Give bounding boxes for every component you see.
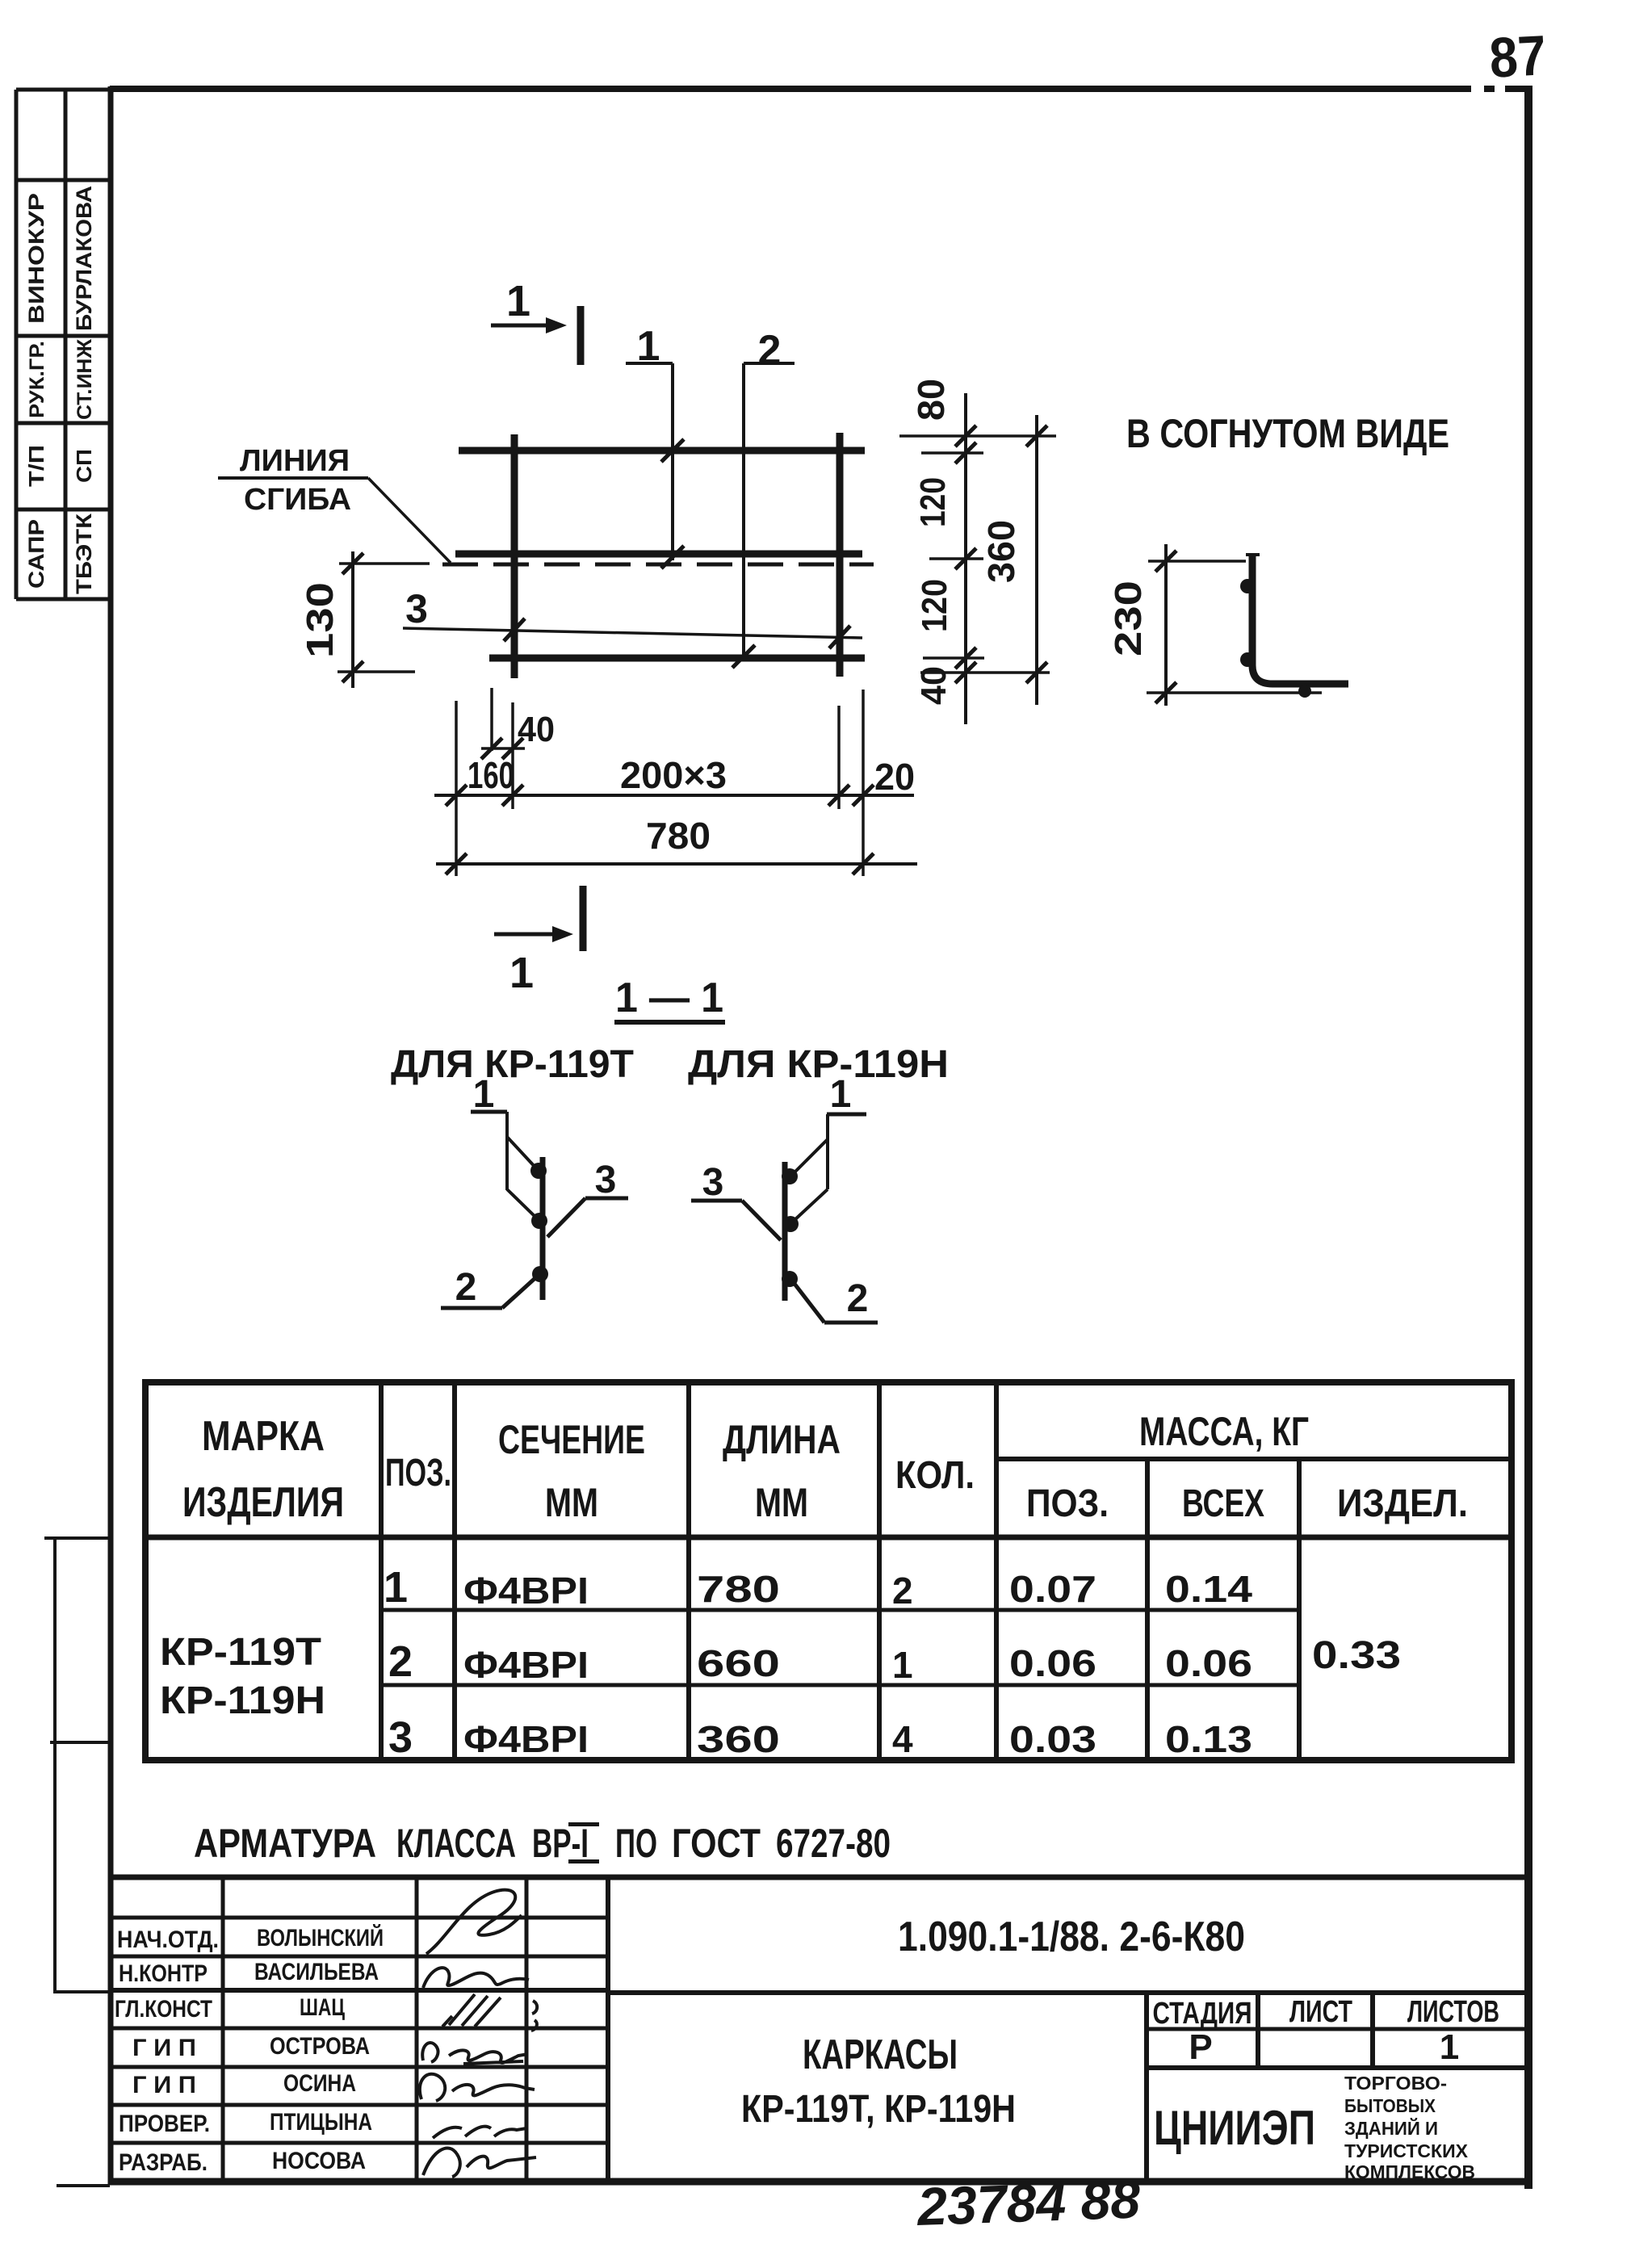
- svg-text:Ф4ВРI: Ф4ВРI: [463, 1644, 589, 1686]
- bar section dots bent view: [1240, 579, 1255, 593]
- svg-text:40: 40: [914, 666, 954, 705]
- svg-text:1 — 1: 1 — 1: [615, 975, 723, 1021]
- drawing frame top border: [110, 86, 1532, 92]
- svg-text:120: 120: [913, 477, 953, 527]
- svg-text:Г И П: Г И П: [132, 2035, 196, 2061]
- svg-text:ДЛЯ КР-119Н: ДЛЯ КР-119Н: [688, 1043, 949, 1086]
- svg-text:0.06: 0.06: [1009, 1642, 1096, 1684]
- doc number cell divider: [608, 1990, 1528, 1995]
- svg-text:2: 2: [455, 1266, 477, 1309]
- svg-text:1: 1: [506, 277, 530, 325]
- svg-text:ИЗДЕЛИЯ: ИЗДЕЛИЯ: [182, 1479, 344, 1526]
- drawing frame right border: [1524, 86, 1532, 2189]
- svg-text:СТ.ИНЖ: СТ.ИНЖ: [73, 339, 96, 420]
- svg-text:130: 130: [299, 582, 341, 658]
- svg-text:660: 660: [697, 1642, 780, 1684]
- right dimension chain 80 120 120 40: [964, 393, 967, 724]
- svg-text:ТБЭТК: ТБЭТК: [72, 513, 96, 594]
- svg-text:2: 2: [388, 1637, 413, 1686]
- svg-text:САПР: САПР: [24, 519, 48, 589]
- svg-text:БУРЛАКОВА: БУРЛАКОВА: [72, 186, 96, 331]
- svg-text:ЛИСТОВ: ЛИСТОВ: [1407, 1995, 1499, 2029]
- svg-text:КОЛ.: КОЛ.: [895, 1454, 975, 1497]
- svg-text:2: 2: [758, 327, 782, 374]
- fold line (линия сгиба): [442, 563, 874, 567]
- svg-text:Р: Р: [1189, 2027, 1212, 2067]
- bent bar: [1252, 554, 1348, 684]
- svg-text:СП: СП: [72, 449, 96, 483]
- section cut marker 1 top: plane tick: [577, 306, 585, 365]
- svg-text:160: 160: [467, 754, 514, 796]
- svg-text:200×3: 200×3: [620, 754, 727, 796]
- right view dots: [782, 1168, 798, 1184]
- svg-text:ПО: ПО: [615, 1821, 657, 1866]
- svg-text:ВСЕХ: ВСЕХ: [1182, 1482, 1264, 1525]
- svg-text:1: 1: [473, 1073, 495, 1116]
- svg-text:ВИНОКУР: ВИНОКУР: [24, 193, 48, 324]
- svg-text:КР-119Т: КР-119Т: [160, 1631, 321, 1674]
- svg-text:ЛИСТ: ЛИСТ: [1289, 1995, 1352, 2029]
- NOTE АРМАТУРА: [194, 1821, 891, 1866]
- vertical bar 3 left: [511, 434, 518, 678]
- right view bar 3: [782, 1162, 788, 1301]
- svg-text:2: 2: [847, 1277, 869, 1320]
- svg-text:1: 1: [384, 1563, 408, 1612]
- svg-text:3: 3: [702, 1161, 724, 1204]
- left inventory boxes: [44, 1538, 112, 2186]
- svg-text:ПОЗ.: ПОЗ.: [385, 1452, 451, 1495]
- bottom dimension witnesses: [455, 701, 458, 876]
- svg-text:0.14: 0.14: [1165, 1568, 1253, 1610]
- svg-text:Г И П: Г И П: [132, 2072, 196, 2098]
- drawing frame left border: [108, 86, 114, 2185]
- svg-text:360: 360: [697, 1718, 780, 1760]
- svg-text:ИЗДЕЛ.: ИЗДЕЛ.: [1337, 1482, 1468, 1525]
- svg-text:БЫТОВЫХ: БЫТОВЫХ: [1344, 2095, 1436, 2116]
- dimension 230: [1164, 544, 1168, 706]
- bar 1 (780): [459, 447, 865, 455]
- SECTION 1-1: [391, 975, 949, 1086]
- svg-text:Н.КОНТР: Н.КОНТР: [119, 1960, 208, 1987]
- svg-text:АРМАТУРА: АРМАТУРА: [194, 1821, 376, 1866]
- svg-text:0.06: 0.06: [1165, 1642, 1252, 1684]
- TITLE BLOCK: [108, 1877, 1528, 2182]
- svg-text:ГОСТ: ГОСТ: [672, 1821, 761, 1866]
- bar 2 (660): [489, 655, 865, 662]
- svg-text:ЗДАНИЙ И: ЗДАНИЙ И: [1344, 2117, 1438, 2139]
- leader 3: line: [403, 628, 862, 638]
- svg-text:Ф4ВРI: Ф4ВРI: [463, 1570, 589, 1612]
- svg-text:РУК.ГР.: РУК.ГР.: [26, 341, 48, 418]
- svg-text:87: 87: [1488, 23, 1548, 90]
- svg-text:20: 20: [874, 756, 915, 798]
- svg-text:0.13: 0.13: [1165, 1718, 1252, 1760]
- signature table verticals: [221, 1877, 225, 2182]
- svg-text:ЦНИИЭП: ЦНИИЭП: [1154, 2101, 1315, 2155]
- svg-text:КАРКАСЫ: КАРКАСЫ: [803, 2031, 958, 2078]
- svg-text:ГЛ.КОНСТ: ГЛ.КОНСТ: [115, 1996, 212, 2023]
- svg-text:Ф4ВРI: Ф4ВРI: [463, 1718, 589, 1760]
- svg-text:780: 780: [697, 1568, 780, 1610]
- svg-text:4: 4: [892, 1718, 913, 1760]
- svg-text:СГИБА: СГИБА: [244, 483, 351, 517]
- bar 1b (780): [455, 551, 862, 558]
- svg-text:1: 1: [509, 949, 534, 997]
- stadia block verticals: [1144, 1993, 1149, 2182]
- table outer border: [145, 1382, 1512, 1760]
- svg-text:2: 2: [892, 1570, 913, 1612]
- dimension 130: [351, 551, 354, 688]
- svg-text:3: 3: [388, 1713, 413, 1762]
- svg-text:КЛАССА: КЛАССА: [396, 1821, 516, 1866]
- svg-text:Т/П: Т/П: [24, 445, 48, 487]
- title block top border: [108, 1875, 1528, 1880]
- drawing frame bottom border: [108, 2178, 1531, 2186]
- signature squiggles: [426, 1890, 522, 1954]
- svg-text:80: 80: [910, 379, 952, 421]
- svg-text:0.07: 0.07: [1009, 1568, 1096, 1610]
- BENT VIEW: [1107, 411, 1449, 706]
- table verticals: [379, 1382, 384, 1760]
- svg-text:ПТИЦЫНА: ПТИЦЫНА: [270, 2109, 372, 2136]
- svg-text:МАРКА: МАРКА: [202, 1413, 325, 1460]
- dimension 40 bottom: [490, 688, 493, 751]
- svg-text:ПРОВЕР.: ПРОВЕР.: [119, 2111, 210, 2137]
- svg-text:1: 1: [1440, 2027, 1459, 2067]
- PARTS TABLE: [145, 1382, 1512, 1762]
- svg-text:РАЗРАБ.: РАЗРАБ.: [119, 2149, 208, 2176]
- svg-text:ММ: ММ: [545, 1480, 598, 1525]
- table horizontals: [996, 1457, 1512, 1461]
- svg-text:6727-80: 6727-80: [776, 1821, 891, 1866]
- svg-text:НОСОВА: НОСОВА: [272, 2148, 366, 2174]
- svg-text:ДЛИНА: ДЛИНА: [723, 1417, 841, 1462]
- svg-text:230: 230: [1107, 581, 1149, 656]
- DEVELOPMENT DRAWING: [218, 277, 1056, 997]
- svg-text:КОМПЛЕКСОВ: КОМПЛЕКСОВ: [1344, 2161, 1475, 2182]
- svg-text:ВР-I: ВР-I: [532, 1821, 589, 1866]
- svg-text:ММ: ММ: [755, 1480, 808, 1525]
- svg-text:3: 3: [405, 586, 428, 631]
- svg-text:1: 1: [892, 1644, 913, 1686]
- svg-text:ВАСИЛЬЕВА: ВАСИЛЬЕВА: [254, 1959, 379, 1985]
- svg-text:23784 88: 23784 88: [915, 2169, 1142, 2237]
- leader 2: lines: [744, 362, 795, 365]
- svg-text:КР-119Н: КР-119Н: [160, 1679, 325, 1722]
- svg-text:ОСТРОВА: ОСТРОВА: [270, 2033, 370, 2060]
- svg-text:СЕЧЕНИЕ: СЕЧЕНИЕ: [498, 1417, 645, 1462]
- svg-text:40: 40: [518, 710, 555, 749]
- vertical bar 3 right: [836, 433, 844, 677]
- svg-text:780: 780: [646, 815, 711, 857]
- svg-text:МАССА, КГ: МАССА, КГ: [1139, 1409, 1309, 1454]
- SECTION VIEW RIGHT (для КР-119Н): [691, 1073, 878, 1323]
- svg-text:1: 1: [830, 1073, 852, 1116]
- dimension chain 160 200x3 20: [434, 794, 914, 797]
- svg-text:1.090.1-1/88. 2-6-К80: 1.090.1-1/88. 2-6-К80: [898, 1914, 1245, 1960]
- section cut marker 1 top: arrow line: [491, 324, 547, 328]
- svg-text:ТУРИСТСКИХ: ТУРИСТСКИХ: [1344, 2140, 1469, 2161]
- signature table horizontals: [111, 1916, 608, 1920]
- svg-text:360: 360: [980, 520, 1022, 583]
- svg-text:ДЛЯ КР-119Т: ДЛЯ КР-119Т: [391, 1043, 634, 1086]
- SECTION VIEW LEFT (для КР-119Т): [441, 1073, 628, 1309]
- svg-text:ТОРГОВО-: ТОРГОВО-: [1344, 2073, 1447, 2094]
- svg-text:ПОЗ.: ПОЗ.: [1026, 1482, 1109, 1525]
- svg-text:3: 3: [595, 1159, 617, 1201]
- svg-text:ВОЛЫНСКИЙ: ВОЛЫНСКИЙ: [257, 1924, 384, 1951]
- dimension 780: [436, 862, 917, 866]
- svg-text:НАЧ.ОТД.: НАЧ.ОТД.: [117, 1926, 219, 1953]
- section cut marker 1 bottom: [494, 933, 554, 937]
- svg-text:КР-119Т, КР-119Н: КР-119Т, КР-119Н: [741, 2088, 1016, 2131]
- svg-text:ШАЦ: ШАЦ: [300, 1994, 345, 2021]
- leader 1: lines: [626, 362, 673, 365]
- svg-text:0.33: 0.33: [1312, 1634, 1401, 1677]
- svg-text:СТАДИЯ: СТАДИЯ: [1153, 1997, 1252, 2031]
- top-left stamp grid: [16, 90, 112, 599]
- svg-text:ОСИНА: ОСИНА: [283, 2070, 356, 2097]
- left view bar 3: [540, 1157, 546, 1300]
- svg-text:0.03: 0.03: [1009, 1718, 1096, 1760]
- stadia block horizontals: [1147, 2027, 1528, 2031]
- svg-text:ЛИНИЯ: ЛИНИЯ: [240, 444, 350, 478]
- svg-text:В СОГНУТОМ ВИДЕ: В СОГНУТОМ ВИДЕ: [1126, 411, 1449, 456]
- svg-text:120: 120: [915, 579, 954, 632]
- left view dots: [530, 1163, 547, 1179]
